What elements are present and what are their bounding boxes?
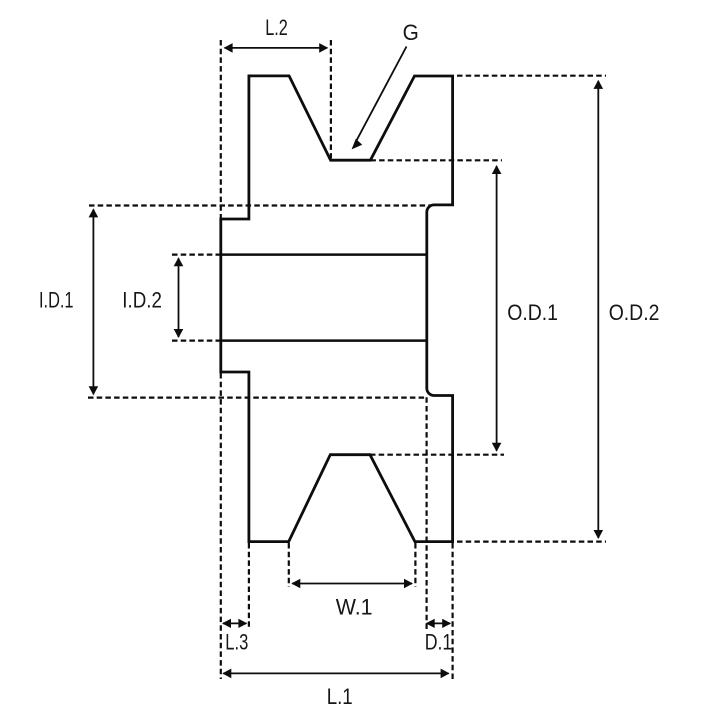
dimension arrow L.3 [222,619,247,628]
extension line I.D.2 top (horizontal dashed) [172,254,220,256]
dimension arrow W.1 [291,579,413,589]
dimension arrow L.2 [224,43,329,53]
extension line W.1 right (vertical dashed) [414,543,416,587]
extension line O.D.1 bottom (horizontal dashed) [370,454,504,456]
pulley cross-section outline [221,76,453,542]
extension line I.D.2 bottom (horizontal dashed) [172,340,220,342]
svg-text:I.D.1: I.D.1 [39,288,74,313]
bore top line [221,253,427,256]
extension line L.1 right (vertical dashed) [452,543,454,679]
svg-text:L.3: L.3 [225,629,248,654]
svg-text:O.D.2: O.D.2 [609,300,660,325]
dimension arrow O.D.2 [594,80,604,539]
dimension arrow I.D.1 [89,208,99,395]
bore bottom line [221,339,427,342]
extension line L.2 right / groove corner (vertical dashed) [330,40,332,159]
extension line D.1 left / hub-right (vertical dashed) [426,397,428,629]
dimension arrow O.D.1 [492,165,502,452]
svg-text:O.D.1: O.D.1 [507,300,558,325]
dimension arrow I.D.2 [174,257,184,338]
extension line I.D.1 top (horizontal dashed) [89,204,432,206]
extension line L.3 right (vertical dashed) [248,543,250,629]
extension line I.D.1 bottom (horizontal dashed) [88,397,427,399]
extension line O.D.1 top (horizontal dashed) [370,159,502,161]
svg-text:I.D.2: I.D.2 [122,288,162,313]
extension line O.D.2 top (horizontal dashed) [457,75,606,77]
dimension arrow D.1 [426,619,452,628]
leader arrow G [352,47,407,150]
svg-text:L.2: L.2 [265,15,288,40]
svg-text:D.1: D.1 [425,629,453,654]
dimension arrow L.1 [222,669,449,679]
extension line L.2 left (vertical dashed) [220,40,222,218]
extension line O.D.2 bottom (horizontal dashed) [457,540,606,542]
svg-text:G: G [403,20,419,45]
extension line W.1 left (vertical dashed) [288,543,290,587]
svg-text:L.1: L.1 [327,684,353,709]
svg-text:W.1: W.1 [336,595,373,620]
extension line hub-left lower (vertical dashed) [220,373,222,679]
